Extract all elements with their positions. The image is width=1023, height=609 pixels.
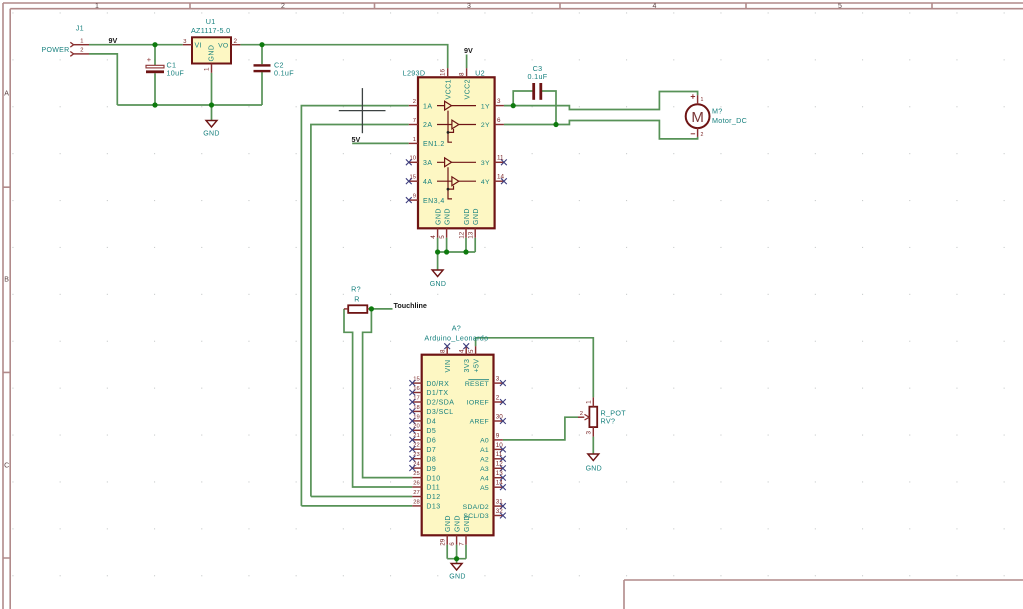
svg-text:U1: U1	[206, 17, 216, 26]
svg-text:Touchline: Touchline	[394, 301, 427, 310]
svg-text:VCC2: VCC2	[464, 79, 471, 99]
graphic line vertical	[361, 88, 363, 133]
A? pin 12 A3	[480, 461, 506, 473]
svg-text:A0: A0	[480, 438, 489, 445]
svg-text:VO: VO	[218, 42, 228, 49]
wire 9V to C2 top	[261, 45, 263, 64]
svg-text:4: 4	[430, 235, 437, 239]
svg-text:12: 12	[496, 461, 504, 468]
svg-text:D2/SDA: D2/SDA	[426, 400, 454, 407]
wire U2 1Y to motor +	[504, 92, 698, 110]
wire 9V label stub to U2 VCC2	[466, 55, 468, 69]
svg-text:GND: GND	[464, 515, 471, 532]
svg-text:EN1.2: EN1.2	[423, 141, 445, 148]
svg-text:1Y: 1Y	[481, 103, 490, 110]
svg-text:RV?: RV?	[601, 416, 616, 425]
ground symbol below A?	[449, 564, 465, 581]
svg-text:2: 2	[281, 3, 285, 10]
wire U2 GND pin5 down	[446, 238, 448, 252]
A? pin 32 SCL/D3	[463, 508, 505, 520]
wire J1 pin2 to GND rail	[89, 54, 117, 105]
A? pin 3 RESET	[465, 376, 506, 388]
svg-text:R?: R?	[351, 284, 361, 293]
svg-text:A3: A3	[480, 466, 489, 473]
capacitor C1 10uF	[146, 55, 184, 78]
svg-text:1: 1	[95, 3, 99, 10]
svg-text:1: 1	[204, 67, 211, 71]
svg-text:31: 31	[496, 499, 504, 506]
svg-text:13: 13	[468, 231, 475, 239]
U2 pin 7 2A	[409, 118, 433, 129]
svg-text:5: 5	[468, 349, 475, 353]
A? pin 9 A0	[480, 432, 503, 444]
wire U2 GND pin13 down	[474, 238, 476, 252]
svg-text:AREF: AREF	[470, 419, 489, 426]
U2 pin 15 4A	[406, 175, 433, 186]
svg-text:2: 2	[413, 99, 416, 105]
wire U2 2Y to motor -	[504, 121, 698, 139]
svg-text:GND: GND	[430, 281, 446, 288]
A? pin 10 A1	[480, 442, 506, 454]
A? pin 28 D13	[412, 499, 440, 510]
svg-text:13: 13	[496, 470, 504, 477]
svg-text:VCC1: VCC1	[445, 79, 452, 99]
svg-text:D5: D5	[426, 428, 436, 435]
wire +5V to R_POT pin1	[476, 338, 594, 398]
wire U2 GND bus	[438, 251, 476, 253]
svg-text:+5V: +5V	[473, 359, 480, 373]
svg-text:D12: D12	[426, 494, 440, 501]
svg-text:5: 5	[838, 3, 842, 10]
svg-text:1: 1	[80, 38, 83, 44]
U2 GND pin 13	[468, 208, 481, 239]
svg-text:GND: GND	[445, 515, 452, 532]
wire 9V rail J1 to U1 VI	[89, 44, 183, 46]
connector J1 POWER	[42, 23, 89, 56]
svg-text:A2: A2	[480, 457, 489, 464]
driver IC U2 L293D	[403, 68, 495, 228]
svg-text:GND: GND	[444, 208, 451, 225]
svg-text:3: 3	[497, 98, 501, 105]
ground symbol below U1	[203, 121, 219, 138]
junction GND rail at U1 GND	[209, 102, 214, 107]
U2 GND pin 5	[439, 208, 452, 239]
U2 internal buffer triangles	[437, 101, 476, 199]
module A? Arduino_Leonardo	[422, 324, 494, 536]
A? pin 17 D2/SDA	[409, 395, 454, 406]
U2 pin 11 3Y	[481, 155, 507, 167]
wire C1 bottom to GND rail	[154, 73, 156, 105]
svg-text:A: A	[4, 91, 9, 98]
capacitor C2 0.1uF	[254, 61, 295, 78]
svg-text:2A: 2A	[423, 122, 432, 129]
A? pin 24 D9	[409, 462, 436, 473]
A? pin 11 A2	[480, 451, 506, 463]
svg-text:AZ1117-5.0: AZ1117-5.0	[191, 26, 231, 35]
A? pin 5 +5V	[468, 346, 480, 372]
A? pin 2 IOREF	[467, 394, 506, 406]
wire U2 GND pin12 down	[465, 238, 467, 252]
svg-text:GND: GND	[203, 130, 219, 137]
svg-text:2: 2	[80, 48, 83, 54]
svg-text:10uF: 10uF	[167, 68, 185, 77]
svg-text:0.1uF: 0.1uF	[274, 68, 294, 77]
svg-text:M?: M?	[712, 106, 723, 115]
junction R right pin / Touchline	[369, 306, 374, 311]
svg-text:25: 25	[413, 471, 419, 477]
svg-text:12: 12	[458, 231, 465, 239]
svg-text:Motor_DC: Motor_DC	[712, 116, 747, 125]
svg-text:J1: J1	[76, 23, 84, 32]
U2 pin 2 1A	[409, 99, 433, 110]
svg-text:2: 2	[701, 132, 704, 138]
svg-text:D9: D9	[426, 466, 436, 473]
svg-text:GND: GND	[454, 515, 461, 532]
A? GND pin 29	[440, 515, 453, 546]
A? pin 25 D10	[412, 471, 440, 482]
svg-text:EN3,4: EN3,4	[423, 198, 445, 205]
wire C2 bottom to GND rail	[261, 72, 263, 105]
svg-text:D4: D4	[426, 419, 436, 426]
svg-text:27: 27	[413, 490, 419, 496]
wire C3 right to 2Y	[542, 91, 556, 125]
svg-text:D8: D8	[426, 456, 436, 463]
svg-text:9: 9	[496, 432, 500, 439]
title block	[624, 580, 1023, 609]
junction 1Y at C3 tap	[511, 103, 516, 108]
A? pin 14 A5	[480, 480, 506, 492]
svg-text:D11: D11	[426, 485, 440, 492]
svg-text:SDA/D2: SDA/D2	[463, 504, 489, 511]
wire A? GND pin7 down	[465, 545, 467, 559]
A? pin 8 VIN	[440, 343, 452, 372]
wire A? GND bus	[447, 558, 466, 560]
svg-text:GND: GND	[435, 208, 442, 225]
svg-text:A1: A1	[480, 447, 489, 454]
U2 pin 9 EN3,4	[406, 194, 445, 205]
svg-text:1: 1	[701, 97, 704, 103]
A? pin 23 D8	[409, 452, 436, 463]
svg-text:2: 2	[496, 394, 500, 401]
resistor R?	[344, 284, 371, 313]
junction GND rail at C1	[152, 102, 157, 107]
A? pin 21 D6	[409, 433, 436, 444]
svg-text:D13: D13	[426, 504, 440, 511]
U2 GND pin 4	[430, 208, 443, 239]
svg-text:VIN: VIN	[445, 359, 452, 372]
svg-text:A?: A?	[452, 324, 461, 333]
A? pin 15 D0/RX	[409, 377, 449, 388]
A? pin 18 D3/SCL	[409, 405, 453, 416]
motor M? Motor_DC	[686, 94, 747, 138]
svg-text:7: 7	[458, 542, 465, 546]
junction 2Y at C3 tap	[553, 122, 558, 127]
svg-text:D7: D7	[426, 447, 436, 454]
U2 pin 3 1Y	[481, 98, 504, 110]
svg-text:Arduino_Leonardo: Arduino_Leonardo	[424, 334, 488, 343]
svg-text:3A: 3A	[423, 160, 432, 167]
wire A? GND pin29 down	[446, 545, 448, 559]
svg-text:4: 4	[459, 349, 466, 353]
svg-text:32: 32	[496, 508, 504, 515]
ground symbol below U2	[430, 270, 446, 288]
wire D13 to U2 1A	[301, 106, 408, 506]
A? pin 16 D1/TX	[409, 386, 448, 397]
wire D12 to U2 2A	[311, 125, 409, 497]
svg-text:7: 7	[413, 118, 416, 124]
svg-text:D1/TX: D1/TX	[426, 390, 448, 397]
wire D13 horizontal	[301, 505, 412, 507]
svg-text:GND: GND	[449, 574, 465, 581]
svg-text:30: 30	[496, 413, 504, 420]
wire 9V to C1 top	[154, 45, 156, 66]
svg-text:3: 3	[183, 39, 186, 45]
svg-text:26: 26	[413, 480, 419, 486]
svg-text:10: 10	[496, 442, 504, 449]
graphic line horizontal	[339, 110, 386, 112]
wire R right pin to D10	[363, 309, 413, 478]
svg-text:8: 8	[440, 349, 447, 353]
svg-text:9V: 9V	[464, 46, 473, 55]
capacitor C3 0.1uF	[528, 64, 548, 100]
svg-text:5V: 5V	[352, 135, 361, 144]
svg-text:2: 2	[580, 411, 583, 417]
A? pin 20 D5	[409, 424, 436, 435]
svg-text:M: M	[691, 109, 704, 126]
svg-text:R: R	[354, 294, 360, 303]
A? pin 4 3V3	[459, 343, 471, 372]
svg-text:1: 1	[413, 137, 416, 143]
wire A0 to R_POT wiper	[503, 417, 578, 440]
svg-text:D6: D6	[426, 438, 436, 445]
svg-text:L293D: L293D	[403, 69, 426, 78]
U2 GND pin 12	[458, 208, 471, 239]
wire U1 GND pin to GND symbol	[211, 73, 213, 121]
wire U1 VO / 9V rail to U2 VCC1	[240, 45, 447, 68]
svg-text:GND: GND	[464, 208, 471, 225]
junction 9V at C1	[152, 42, 157, 47]
U2 pin 1 EN1.2	[409, 137, 445, 148]
ground symbol below R_POT	[586, 454, 602, 472]
svg-text:4: 4	[653, 3, 657, 10]
junction U2 GND bus pin12	[463, 249, 468, 254]
svg-text:POWER: POWER	[42, 47, 70, 54]
svg-text:B: B	[4, 277, 9, 284]
svg-text:2: 2	[234, 38, 238, 45]
svg-text:0.1uF: 0.1uF	[528, 72, 548, 81]
wire 1Y tap to C3 left	[513, 91, 533, 106]
svg-text:2Y: 2Y	[481, 122, 490, 129]
A? pin 22 D7	[409, 443, 436, 454]
wire A? GND pin6 down to GND symbol	[456, 545, 458, 564]
wire GND rail	[117, 104, 262, 106]
svg-text:GND: GND	[209, 45, 216, 62]
A? pin 13 A4	[480, 470, 506, 482]
junction U2 GND bus pin5	[444, 249, 449, 254]
svg-text:14: 14	[496, 480, 504, 487]
svg-text:14: 14	[497, 174, 505, 181]
svg-text:+: +	[147, 55, 151, 64]
svg-text:3: 3	[586, 431, 593, 435]
svg-text:GND: GND	[473, 208, 480, 225]
svg-text:D10: D10	[426, 475, 440, 482]
A? pin 26 D11	[412, 480, 440, 491]
wire R left pin to D11	[344, 309, 412, 487]
A? pin 19 D4	[409, 414, 436, 425]
svg-text:6: 6	[449, 542, 456, 546]
junction A? GND bus	[454, 556, 459, 561]
svg-text:U2: U2	[475, 69, 485, 78]
svg-text:1A: 1A	[423, 103, 432, 110]
svg-text:16: 16	[440, 68, 447, 76]
svg-text:D3/SCL: D3/SCL	[426, 409, 453, 416]
svg-text:28: 28	[413, 499, 419, 505]
svg-text:GND: GND	[586, 465, 602, 472]
U2 pin 10 3A	[406, 156, 433, 167]
U2 pin 14 4Y	[481, 174, 507, 186]
wire D12 horizontal	[311, 496, 412, 498]
svg-text:1: 1	[586, 400, 593, 404]
svg-text:6: 6	[497, 117, 501, 124]
wire R_POT pin3 to GND symbol	[592, 437, 594, 454]
wire U2 GND pin4 down to GND symbol	[437, 238, 439, 270]
svg-text:8: 8	[459, 72, 466, 76]
A? pin 31 SDA/D2	[463, 499, 506, 511]
svg-text:RESET: RESET	[465, 381, 489, 388]
svg-text:3V3: 3V3	[464, 359, 471, 373]
U2 pin 6 2Y	[481, 117, 504, 129]
svg-text:9: 9	[413, 194, 416, 200]
A? pin 30 AREF	[470, 413, 506, 425]
A? GND pin 7	[458, 515, 471, 546]
junction U2 GND bus pin4	[435, 249, 440, 254]
svg-text:3: 3	[496, 376, 500, 383]
wire to Touchline label	[371, 308, 392, 310]
svg-text:A5: A5	[480, 485, 489, 492]
svg-text:4Y: 4Y	[481, 179, 490, 186]
svg-text:IOREF: IOREF	[467, 400, 489, 407]
svg-text:D0/RX: D0/RX	[426, 381, 449, 388]
svg-text:3Y: 3Y	[481, 160, 490, 167]
svg-text:C: C	[4, 463, 9, 470]
A? GND pin 6	[449, 515, 462, 546]
svg-text:3: 3	[467, 3, 471, 10]
wire 5V label to U2 EN1.2	[352, 142, 409, 144]
junction 9V at C2	[259, 42, 264, 47]
svg-text:VI: VI	[195, 42, 203, 49]
svg-text:5: 5	[439, 235, 446, 239]
svg-text:A4: A4	[480, 475, 489, 482]
svg-text:29: 29	[440, 538, 447, 546]
potentiometer RV? R_POT	[578, 397, 626, 436]
svg-text:4A: 4A	[423, 179, 432, 186]
regulator U1 AZ1117-5.0	[183, 17, 241, 73]
A? pin 27 D12	[412, 490, 440, 501]
svg-text:9V: 9V	[109, 36, 118, 45]
